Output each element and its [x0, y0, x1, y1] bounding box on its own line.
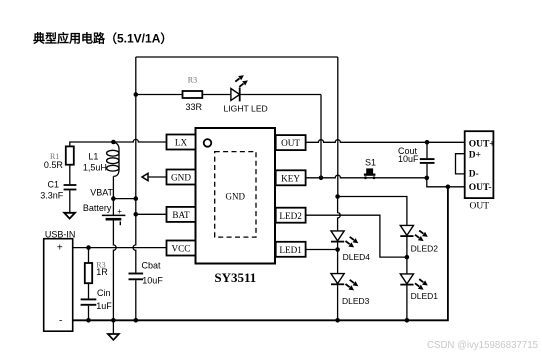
node Cin bottom — [86, 318, 91, 323]
svg-text:LED1: LED1 — [279, 245, 302, 255]
capacitor Cbat 10uF — [129, 273, 144, 275]
node DLED1 rail junction — [405, 318, 410, 323]
wire DLED2 to DLED1 — [406, 237, 408, 274]
wire D+ D- short bracket — [456, 154, 465, 174]
svg-text:L1: L1 — [88, 152, 98, 162]
capacitor C1 3.3nF — [64, 184, 77, 186]
node battery minus rail — [111, 318, 116, 323]
svg-text:DLED2: DLED2 — [411, 244, 439, 254]
pin BAT box — [167, 207, 196, 222]
node VBAT left — [111, 196, 116, 201]
svg-text:GND: GND — [226, 191, 246, 201]
svg-text:10uF: 10uF — [398, 154, 419, 164]
svg-text:D+: D+ — [469, 151, 481, 161]
pin LX box — [167, 135, 196, 150]
wire R1 to C1 — [69, 165, 71, 185]
node DLED3 rail junction — [335, 318, 340, 323]
thermal pad dashed box GND — [215, 152, 256, 238]
wire R3 to LIGHT LED — [202, 94, 231, 96]
svg-text:S1: S1 — [365, 158, 376, 168]
resistor R1 0.5R — [66, 146, 74, 164]
pin GND box — [167, 170, 196, 185]
svg-text:1R: 1R — [96, 267, 108, 277]
svg-text:SY3511: SY3511 — [214, 270, 256, 285]
capacitor Cin 1uF — [81, 298, 97, 300]
pin LED1 box — [276, 242, 306, 257]
pin KEY box — [276, 170, 306, 185]
wire KEY net with hop — [306, 175, 427, 178]
svg-text:USB-IN: USB-IN — [45, 230, 76, 240]
svg-text:LED2: LED2 — [279, 211, 302, 221]
node Cout top — [425, 140, 430, 145]
capacitor Cout 10uF — [426, 142, 428, 158]
node LED1 junction — [335, 247, 340, 252]
ground rail bottom — [73, 187, 448, 320]
svg-text:LIGHT LED: LIGHT LED — [224, 103, 268, 113]
node R3 top junction — [86, 245, 91, 250]
connector USB-IN — [44, 239, 73, 332]
svg-text:OUT+: OUT+ — [469, 139, 495, 149]
svg-text:Cin: Cin — [97, 288, 111, 298]
svg-text:DLED4: DLED4 — [343, 252, 371, 262]
svg-text:Battery: Battery — [83, 203, 112, 213]
node OUT- junction — [446, 185, 451, 190]
wire LED2 pin to right chain — [306, 215, 407, 257]
svg-text:VBAT: VBAT — [90, 188, 113, 198]
pin OUT box — [276, 135, 306, 150]
svg-text:CSDN @ivy15986837715: CSDN @ivy15986837715 — [427, 340, 538, 351]
pin LED2 box — [276, 208, 306, 223]
wire LX net with hop over VBAT rail — [70, 139, 167, 146]
svg-text:DLED1: DLED1 — [411, 291, 439, 301]
node Cbat bottom — [134, 318, 139, 323]
wire R3 to Cin — [88, 283, 90, 298]
wire DLED3 to rail — [337, 285, 339, 320]
node L1 top junction — [111, 140, 116, 145]
diode DLED2 — [400, 225, 413, 235]
wire R3 row left segment — [136, 94, 183, 96]
ground arrow at GND pin — [148, 176, 167, 178]
pin VCC box — [167, 241, 196, 256]
svg-text:DLED3: DLED3 — [342, 296, 370, 306]
wire BAT pin to VBAT rail — [136, 213, 167, 215]
node DLED supply junction — [335, 194, 340, 199]
node VBAT right — [134, 196, 139, 201]
resistor R3 1R — [88, 248, 90, 263]
node Cout bottom junction — [425, 176, 430, 181]
wire VBAT top frame horizontal — [136, 56, 338, 58]
wire DLED4 to DLED3 — [337, 243, 339, 274]
svg-text:0.5R: 0.5R — [44, 160, 64, 170]
wire VBAT node horizontal — [113, 198, 135, 200]
diode LIGHT LED — [231, 89, 240, 101]
wire DLED supply to right chain — [338, 197, 407, 226]
node KEY and LED-row junction — [319, 176, 324, 181]
wire Cout bottom to OUT- — [427, 178, 465, 187]
svg-text:LX: LX — [175, 138, 188, 148]
diode DLED3 — [331, 274, 344, 284]
ground symbol below rail — [112, 320, 114, 334]
switch S1 — [364, 158, 376, 180]
wire DLED4 vertical with hop over LED2 wire — [338, 197, 341, 231]
svg-text:1,5uH: 1,5uH — [83, 163, 107, 173]
inductor L1 1.5uH — [83, 142, 119, 199]
svg-text:+: + — [117, 207, 122, 216]
ground symbol below C1 — [64, 213, 75, 219]
wire battery minus down with hop over VCC wire — [113, 221, 116, 321]
wire Cin to ground rail — [88, 306, 90, 321]
svg-text:典型应用电路（5.1V/1A）: 典型应用电路（5.1V/1A） — [33, 31, 172, 46]
svg-text:33R: 33R — [186, 102, 203, 112]
svg-text:1uF: 1uF — [96, 301, 112, 311]
wire VBAT left rail vertical — [133, 57, 136, 320]
svg-text:OUT-: OUT- — [469, 183, 492, 193]
wire LIGHT LED to KEY column — [240, 94, 321, 96]
svg-text:R3: R3 — [188, 75, 197, 84]
diode DLED1 — [400, 274, 413, 284]
svg-text:KEY: KEY — [281, 173, 300, 183]
wire OUT net with two hops — [306, 140, 465, 143]
node BAT junction — [134, 212, 139, 217]
svg-text:OUT: OUT — [470, 201, 490, 211]
node junction at VBAT rail and R3 row — [134, 92, 139, 97]
pin-1 marker circle — [204, 139, 212, 147]
wire right frame vertical down to DLED node — [337, 57, 339, 197]
svg-text:C1: C1 — [48, 180, 60, 190]
svg-text:GND: GND — [171, 173, 191, 183]
svg-text:+: + — [57, 243, 63, 254]
svg-text:D-: D- — [469, 170, 479, 180]
svg-text:-: - — [59, 315, 62, 326]
wire VCC net from USB-IN — [73, 247, 167, 249]
node LED2 junction — [405, 255, 410, 260]
svg-text:VCC: VCC — [172, 244, 191, 254]
wire LED-row vertical down to KEY line — [320, 95, 322, 178]
wire LED1 pin to junction — [306, 249, 338, 251]
battery Battery — [83, 199, 126, 226]
svg-text:3.3nF: 3.3nF — [40, 190, 64, 200]
svg-text:BAT: BAT — [172, 210, 190, 220]
wire C1 to ground — [69, 190, 71, 212]
svg-text:Cbat: Cbat — [142, 260, 162, 270]
svg-text:10uF: 10uF — [142, 275, 163, 285]
connector OUT (OUT+ D+ D- OUT-) — [465, 131, 494, 198]
svg-text:OUT: OUT — [281, 138, 300, 148]
diode DLED4 — [331, 231, 344, 241]
wire DLED1 to rail — [406, 286, 408, 321]
IC U1 SY3511 body — [196, 128, 276, 264]
resistor R3 33R — [183, 91, 203, 98]
